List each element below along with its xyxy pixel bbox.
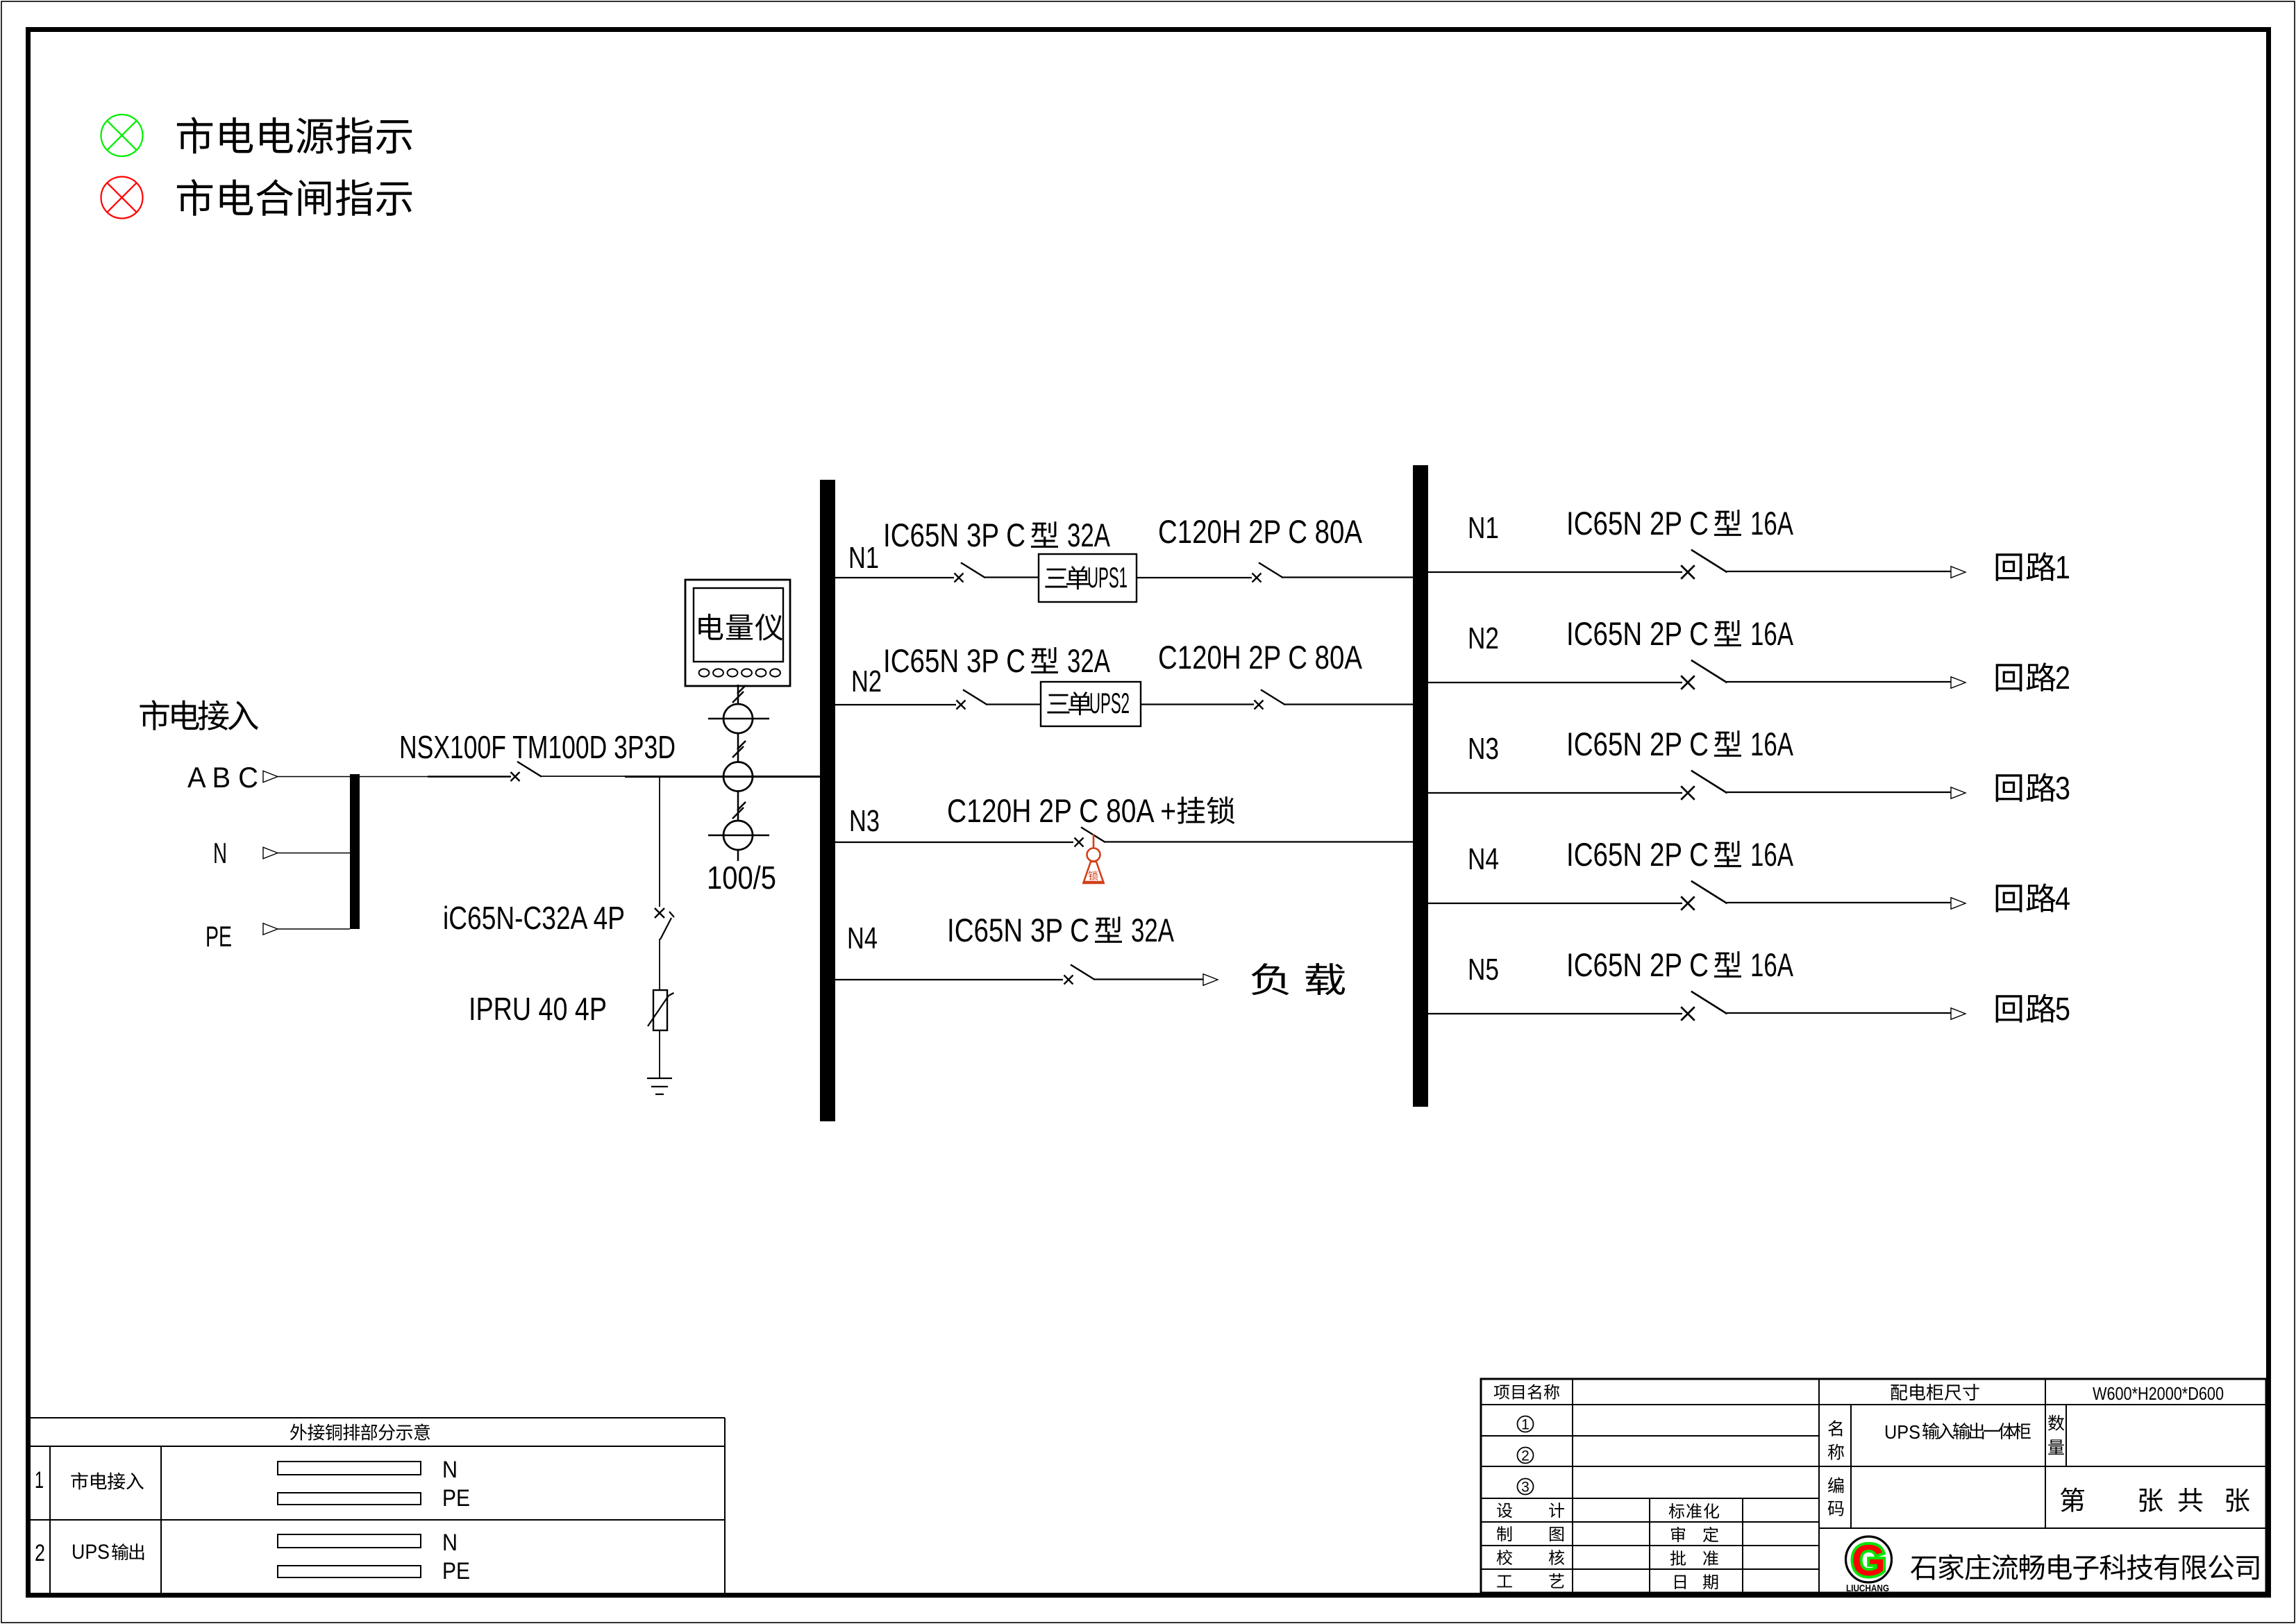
svg-text:IC65N 2P C: IC65N 2P C [1566,615,1709,652]
wire input bus to main breaker [360,776,428,778]
company logo [1846,1537,1892,1593]
label 负载 [1251,963,1345,995]
surge arrester IPRU 40 (varistor) [648,990,674,1030]
wire main breaker to left bus [541,776,625,777]
UPS2 box 三单UPS2 [1041,682,1141,726]
CT secondary double slash 2 [732,746,744,757]
CT secondary double slash 1 [732,692,744,703]
label C120H 2P C 80A +挂锁 [947,792,1234,829]
svg-text:UPS: UPS [72,1541,110,1564]
wire right bus to breaker circuit 5 [1428,1013,1682,1014]
padlock symbol (挂锁) [1082,834,1105,883]
wire left bus to breaker N1 [835,577,954,578]
label 审定 [1671,1527,1718,1542]
svg-text:IC65N 2P C: IC65N 2P C [1566,946,1709,983]
wire breaker to arrow circuit 2 [1727,681,1951,683]
label 项目名称 [1494,1384,1559,1399]
label 工艺 [1497,1573,1564,1588]
svg-text:3: 3 [2055,770,2070,806]
circled number 3 [1518,1479,1534,1496]
indicator lamp red (mains closed) [101,177,143,219]
wire right bus to breaker circuit 1 [1428,571,1682,573]
arrow circuit 2 [1951,677,1966,688]
label IC65N 2P C型 16A (circuit 3) [1566,726,1793,762]
svg-text:N5: N5 [1468,953,1499,987]
wire CT1 to CT2 [737,733,739,762]
wire right bus to breaker circuit 2 [1428,682,1682,683]
busbar PE (row2) [278,1566,421,1577]
label 校核 [1497,1550,1564,1565]
svg-text:32A: 32A [1067,642,1110,679]
label 数量 (vertical) [2048,1415,2064,1455]
label IC65N 2P C型 16A (circuit 1) [1566,505,1793,542]
busbar N (row2) [278,1534,421,1548]
wire right bus to breaker circuit 3 [1428,792,1682,794]
svg-text:IC65N 3P C: IC65N 3P C [883,642,1025,679]
input arrow A B C [263,771,278,782]
wire breaker to UPS2 box [987,703,1041,705]
svg-text:C120H 2P C 80A +: C120H 2P C 80A + [947,792,1176,829]
label 编码 (vertical) [1828,1477,1844,1516]
company name 石家庄流畅电子科技有限公司 [1911,1554,2259,1580]
label 回路2 [1996,660,2070,696]
svg-text:UPS2: UPS2 [1089,687,1130,719]
svg-text:N: N [442,1530,458,1556]
svg-text:N1: N1 [1468,511,1499,545]
wire left bus to breaker N2 [835,704,956,705]
table header 外接铜排部分示意 [290,1423,430,1440]
breaker C120H N3 [1075,828,1105,847]
label IC65N 3P C型 32A (N1) [883,517,1110,553]
svg-text:2: 2 [1521,1448,1530,1464]
svg-text:W600*H2000*D600: W600*H2000*D600 [2093,1383,2224,1404]
svg-text:N2: N2 [851,664,882,698]
label 回路3 [1996,770,2070,806]
label 制图 [1497,1526,1564,1541]
label IC65N 3P C型 32A (N4) [947,912,1174,948]
arrow circuit 5 [1951,1008,1966,1019]
busbar PE (row1) [278,1493,421,1505]
wire ABC to input bus [278,776,350,778]
power meter 电量仪 box [685,580,790,686]
svg-text:16A: 16A [1750,505,1793,542]
wire C120H N1 to right bus [1282,576,1413,578]
wire breaker to surge arrester [659,939,660,990]
UPS1 box 三单UPS1 [1039,554,1137,602]
svg-text:32A: 32A [1067,517,1110,553]
arrow circuit 3 [1951,787,1966,798]
label 日期 [1675,1574,1718,1589]
right bus bar (UPS output bus) [1413,465,1428,1107]
svg-text:IC65N 2P C: IC65N 2P C [1566,505,1709,542]
svg-text:N: N [442,1457,458,1483]
label 名称 (vertical) [1828,1421,1844,1460]
label 市电电源指示 [177,117,412,153]
label IC65N 2P C型 16A (circuit 4) [1566,836,1793,873]
main breaker NSX100F [511,762,542,782]
label IC65N 2P C型 16A (circuit 5) [1566,946,1793,983]
breaker IC65N circuit 5 [1681,992,1726,1021]
label UPS输入输出一体柜 [1884,1421,2031,1443]
svg-text:32A: 32A [1131,912,1174,948]
arrow to load [1203,974,1218,985]
current transformer CT3 [708,821,769,850]
breaker IC65N circuit 4 [1681,882,1726,910]
wire surge arrester to ground [659,1030,660,1078]
circled number 2 [1518,1448,1534,1464]
breaker IC65N circuit 2 [1681,661,1726,689]
svg-text:4: 4 [2055,880,2070,916]
label 回路4 [1996,880,2070,916]
copper busbar table frame [29,1418,725,1593]
svg-text:IC65N 2P C: IC65N 2P C [1566,726,1709,762]
svg-text:PE: PE [442,1485,470,1512]
label 回路1 [1996,549,2070,585]
svg-text:PE: PE [206,920,232,953]
label 设计 [1497,1502,1564,1518]
wire breaker to arrow circuit 4 [1727,902,1951,903]
svg-text:N: N [213,837,227,869]
svg-text:C120H 2P C 80A: C120H 2P C 80A [1158,639,1363,676]
breaker iC65N-C32A (vertical) [655,908,674,939]
svg-text:IC65N 3P C: IC65N 3P C [883,517,1025,553]
label 回路5 [1996,991,2070,1027]
wire left bus to breaker N3 [835,842,1073,843]
indicator lamp green (mains power) [101,115,143,156]
breaker C120H N2 [1255,690,1285,710]
label IC65N 3P C型 32A (N2) [883,642,1110,679]
row 1 label 市电接入 [71,1472,143,1489]
current transformer CT2 (on main wire) [723,762,753,792]
svg-text:IPRU 40 4P: IPRU 40 4P [469,991,607,1027]
wire below CT3 [737,850,739,861]
svg-text:IC65N 3P C: IC65N 3P C [947,912,1089,948]
wire breaker N3 to right bus [1105,841,1413,842]
busbar N (row1) [278,1462,421,1475]
svg-text:1: 1 [2055,549,2070,585]
svg-text:5: 5 [2055,991,2070,1027]
svg-text:N1: N1 [848,541,879,575]
arrow circuit 4 [1951,898,1966,909]
arrow circuit 1 [1951,567,1966,578]
row 2 label UPS输出 [72,1541,144,1564]
svg-text:3: 3 [1521,1480,1530,1496]
svg-text:UPS1: UPS1 [1087,561,1128,594]
wire C120H N2 to right bus [1284,703,1413,705]
svg-text:UPS: UPS [1884,1421,1920,1443]
svg-text:IC65N 2P C: IC65N 2P C [1566,836,1709,873]
breaker IC65N circuit 3 [1681,771,1726,800]
svg-text:100/5: 100/5 [707,860,776,896]
label IC65N 2P C型 16A (circuit 2) [1566,615,1793,652]
svg-text:N3: N3 [849,804,880,838]
svg-text:N4: N4 [847,921,878,955]
svg-text:iC65N-C32A 4P: iC65N-C32A 4P [443,900,625,936]
label 批准 [1670,1550,1718,1566]
svg-text:A B C: A B C [187,761,258,794]
left bus bar (UPS input bus) [820,480,835,1121]
label 市电合闸指示 [177,179,412,216]
wire UPS2 box to breaker C120H N2 [1141,703,1254,705]
svg-text:N2: N2 [1468,621,1499,655]
breaker IC65N N2 [957,690,987,710]
input busbar (black bar) [350,774,360,929]
breaker IC65N N1 [955,563,985,583]
wire left bus to breaker N4 [835,979,1063,980]
breaker IC65N N4 [1064,965,1095,985]
node junction surge branch [659,777,660,907]
label 电量仪 [698,614,782,641]
svg-text:16A: 16A [1750,946,1793,983]
label 市电接入 (mains incoming) [140,700,258,730]
svg-text:G: G [1852,1537,1886,1585]
title block frame [1481,1379,2266,1593]
svg-text:16A: 16A [1750,726,1793,762]
wire CT2 to CT3 [737,792,739,821]
svg-text:16A: 16A [1750,615,1793,652]
label 配电柜尺寸 [1891,1384,1979,1400]
label 第 张 共 张 [2061,1487,2249,1512]
meter terminal dots [699,669,780,676]
breaker IC65N circuit 1 [1681,551,1726,579]
input arrow N [263,847,278,858]
wire breaker to arrow circuit 3 [1727,792,1951,793]
svg-text:2: 2 [2055,660,2070,696]
svg-text:16A: 16A [1750,836,1793,873]
svg-text:LIUCHANG: LIUCHANG [1846,1583,1889,1593]
svg-text:NSX100F TM100D 3P3D: NSX100F TM100D 3P3D [399,729,676,765]
wire N to input bus [278,853,350,854]
current transformer CT1 [708,704,769,733]
input arrow PE [263,923,278,935]
wire breaker to arrow circuit 1 [1727,571,1951,572]
breaker C120H N1 [1252,563,1283,583]
wire right bus to breaker circuit 4 [1428,903,1682,904]
svg-text:2: 2 [35,1540,45,1566]
wire PE to input bus [278,928,350,930]
svg-text:C120H 2P C 80A: C120H 2P C 80A [1158,513,1363,550]
svg-text:N4: N4 [1468,842,1499,876]
wire UPS1 box to breaker C120H N1 [1137,577,1252,578]
wire breaker N4 to load arrow [1094,978,1203,980]
ground symbol [647,1078,672,1094]
wire breaker to arrow circuit 5 [1727,1012,1951,1014]
svg-text:PE: PE [442,1558,470,1584]
wire breaker to UPS1 box [984,576,1039,578]
svg-text:1: 1 [1521,1417,1530,1433]
circled number 1 [1518,1416,1534,1433]
svg-text:N3: N3 [1468,732,1499,766]
label 标准化 [1669,1503,1720,1518]
svg-text:1: 1 [35,1467,44,1493]
CT secondary double slash 3 [732,807,744,819]
wire meter to CT chain [737,685,739,705]
